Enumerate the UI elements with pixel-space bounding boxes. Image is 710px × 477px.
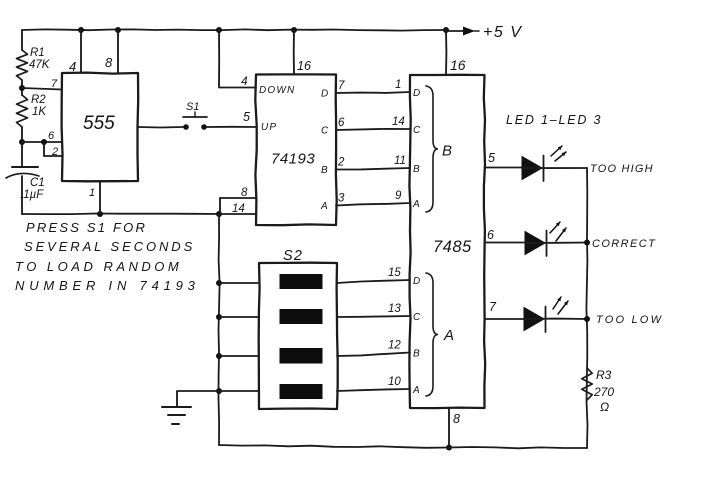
svg-text:R1: R1 <box>30 47 45 59</box>
svg-text:PRESS S1 FOR: PRESS S1 FOR <box>26 220 147 235</box>
svg-text:.1µF: .1µF <box>20 189 44 201</box>
svg-text:TOO LOW: TOO LOW <box>596 314 663 326</box>
svg-text:4: 4 <box>241 74 248 88</box>
svg-text:R3: R3 <box>596 368 612 382</box>
svg-text:1: 1 <box>395 79 401 91</box>
svg-text:B: B <box>442 143 452 160</box>
svg-text:555: 555 <box>83 113 115 134</box>
svg-text:R2: R2 <box>31 94 46 106</box>
svg-text:6: 6 <box>487 228 494 242</box>
svg-text:12: 12 <box>388 340 401 352</box>
svg-text:7: 7 <box>338 80 345 92</box>
svg-text:6: 6 <box>338 117 345 129</box>
svg-text:TOO HIGH: TOO HIGH <box>590 163 654 175</box>
svg-text:UP: UP <box>261 122 277 133</box>
svg-text:10: 10 <box>388 376 401 388</box>
svg-text:14: 14 <box>232 203 245 215</box>
svg-text:7: 7 <box>489 300 497 314</box>
svg-text:C: C <box>413 125 421 136</box>
svg-text:TO LOAD RANDOM: TO LOAD RANDOM <box>15 259 182 274</box>
svg-text:A: A <box>320 201 328 212</box>
svg-text:D: D <box>413 88 420 99</box>
svg-text:A: A <box>412 385 420 396</box>
svg-text:C1: C1 <box>30 177 45 189</box>
svg-text:B: B <box>413 349 420 360</box>
svg-text:3: 3 <box>338 193 345 205</box>
svg-text:D: D <box>321 89 328 100</box>
svg-text:S2: S2 <box>283 248 303 264</box>
svg-text:2: 2 <box>51 146 58 158</box>
svg-text:270: 270 <box>593 385 614 399</box>
svg-text:16: 16 <box>297 59 311 73</box>
svg-text:Ω: Ω <box>600 400 609 414</box>
svg-text:9: 9 <box>395 190 402 202</box>
svg-text:6: 6 <box>48 130 55 142</box>
svg-text:7485: 7485 <box>433 238 472 256</box>
svg-text:CORRECT: CORRECT <box>592 238 656 250</box>
svg-text:C: C <box>413 312 421 323</box>
svg-text:47K: 47K <box>29 59 51 71</box>
svg-text:1: 1 <box>89 187 95 199</box>
svg-text:1K: 1K <box>32 106 47 118</box>
svg-text:S1: S1 <box>186 101 199 113</box>
svg-text:8: 8 <box>241 187 248 199</box>
svg-text:16: 16 <box>450 57 466 73</box>
svg-text:LED 1–LED 3: LED 1–LED 3 <box>506 113 602 127</box>
svg-text:2: 2 <box>337 157 345 169</box>
svg-text:B: B <box>321 165 328 176</box>
svg-text:C: C <box>321 126 329 137</box>
svg-text:13: 13 <box>388 303 401 315</box>
svg-text:NUMBER IN 74193: NUMBER IN 74193 <box>15 278 200 293</box>
svg-text:4: 4 <box>69 59 76 74</box>
svg-text:14: 14 <box>392 116 405 128</box>
svg-text:D: D <box>413 276 420 287</box>
svg-text:A: A <box>443 327 454 344</box>
svg-text:11: 11 <box>394 155 406 167</box>
svg-text:A: A <box>412 199 420 210</box>
svg-text:SEVERAL SECONDS: SEVERAL SECONDS <box>24 239 195 254</box>
svg-text:5: 5 <box>488 151 495 165</box>
svg-text:5: 5 <box>243 110 250 124</box>
svg-text:8: 8 <box>453 412 460 426</box>
svg-text:B: B <box>413 164 420 175</box>
svg-text:7: 7 <box>51 78 58 90</box>
svg-text:+5 V: +5 V <box>483 24 522 41</box>
svg-text:DOWN: DOWN <box>259 85 295 96</box>
svg-text:8: 8 <box>105 55 113 70</box>
svg-text:15: 15 <box>388 267 401 279</box>
svg-text:74193: 74193 <box>271 151 315 168</box>
